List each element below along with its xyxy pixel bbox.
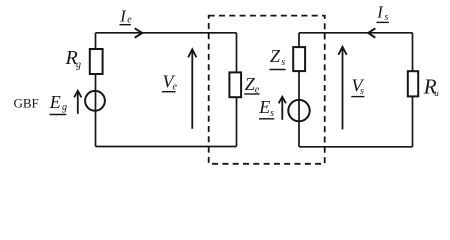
label Is (underlined)	[376, 2, 389, 23]
label Ie (underlined)	[119, 7, 132, 26]
label Ru	[423, 74, 439, 98]
label Eg (underlined)	[49, 92, 67, 115]
wire: right loop bottom segment	[299, 146, 413, 148]
dashed two-port network box	[209, 16, 325, 164]
label Zs (underlined)	[270, 46, 286, 69]
wire: Ru branch vertical segment	[412, 33, 414, 147]
source Eg (circle)	[85, 91, 105, 111]
wire: Ze branch vertical segment	[236, 33, 238, 147]
label Ze (underlined)	[244, 74, 259, 95]
wire: right loop top segment	[299, 32, 413, 34]
resistor/impedance Ze	[229, 72, 241, 97]
wire: left loop top segment	[96, 32, 237, 34]
svg-text:s: s	[281, 57, 285, 68]
svg-text:s: s	[384, 12, 388, 23]
svg-text:e: e	[173, 81, 178, 92]
svg-text:E: E	[258, 97, 270, 117]
svg-text:Z: Z	[270, 46, 281, 66]
voltage arrow Ve (up arrow)	[188, 49, 196, 129]
label Vs (underlined)	[351, 76, 364, 98]
wire: left loop bottom segment	[96, 146, 237, 148]
source Es (circle)	[288, 100, 309, 121]
svg-text:u: u	[434, 88, 439, 98]
impedance Zs	[293, 47, 305, 71]
wire: left loop left vertical segment	[95, 33, 97, 147]
voltage arrow Vs (up arrow)	[338, 47, 346, 130]
svg-text:g: g	[76, 59, 81, 70]
svg-text:s: s	[360, 86, 364, 97]
current arrow Is (on top wire, pointing left)	[368, 28, 375, 37]
resistor Ru	[408, 71, 418, 96]
label Ve (underlined)	[162, 72, 178, 93]
svg-text:s: s	[270, 108, 274, 119]
svg-text:E: E	[49, 92, 61, 112]
wire: right loop left vertical (Zs/Es branch)	[298, 33, 300, 147]
resistor Rg	[90, 49, 103, 74]
label Rg	[65, 47, 82, 70]
emf arrow Es (up arrow)	[279, 97, 286, 120]
label Es (underlined)	[258, 97, 274, 119]
emf arrow Eg (up arrow)	[74, 91, 81, 114]
svg-text:g: g	[62, 102, 67, 113]
current arrow Ie (on top wire, pointing right)	[135, 28, 143, 37]
svg-text:GBF: GBF	[14, 95, 39, 110]
